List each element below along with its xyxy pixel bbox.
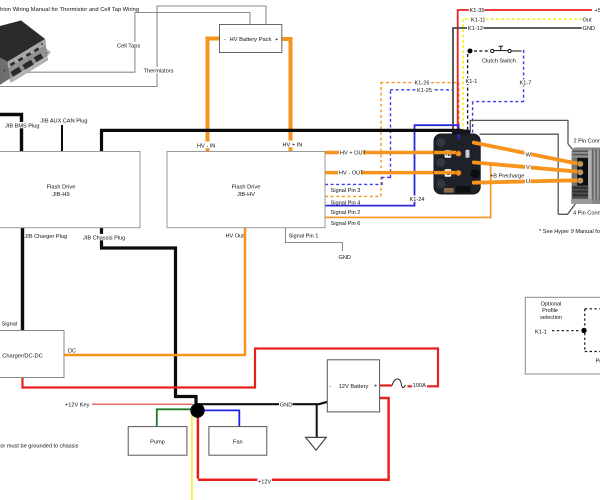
wire: main black bus JIB-H9 to controller — [100, 129, 461, 152]
svg-text:HV - IN: HV - IN — [197, 144, 215, 150]
svg-text:* See Hyper 9 Manual for more: * See Hyper 9 Manual for more — [539, 229, 600, 235]
label W — [525, 151, 532, 158]
wire: thermistors (BMS to HV pack) — [0, 6, 266, 88]
svg-text:K1-12: K1-12 — [468, 26, 483, 32]
label JIB BMS Plug — [5, 122, 40, 130]
wire: HV - OUT segment over controller — [434, 171, 456, 175]
wire K1-26 / Signal Pin 4 (orange dashed) — [325, 83, 459, 197]
svg-text:K1-11: K1-11 — [471, 18, 486, 24]
box: Flash Drive JIB-H9 — [0, 152, 140, 228]
svg-text:Fan: Fan — [233, 440, 243, 446]
wire: JIB BMS plug — [0, 113, 22, 152]
wire: cell taps (BMS to HV pack) — [21, 12, 250, 73]
phase wire U — [474, 180, 580, 183]
svg-text:+B Precharge: +B Precharge — [490, 173, 524, 179]
label V — [525, 164, 531, 171]
svg-text:JIB BMS Plug: JIB BMS Plug — [5, 124, 40, 130]
label Cell Taps — [117, 42, 142, 50]
wire Signal Pin 6 (thin orange, +B precharge) — [325, 164, 491, 219]
label +5 (clipped) — [594, 7, 600, 15]
svg-text:Out: Out — [583, 18, 592, 24]
svg-text:Profiles: Profiles — [596, 359, 600, 365]
label JIB Chassis Plug — [83, 234, 126, 242]
svg-text:4 Pin Connector: 4 Pin Connector — [573, 211, 600, 217]
box: Pump — [128, 427, 187, 456]
box: Optional Profile selection — [525, 297, 600, 374]
wire: charger 12V red loop to battery fuse — [21, 347, 439, 388]
phase wire V — [474, 162, 580, 171]
box: Flash Drive JIB-HV — [167, 152, 325, 228]
wire: fan feed (blue) — [202, 410, 239, 427]
wire: JIB AUX CAN plug — [61, 125, 63, 152]
junction node (12V distribution) — [190, 403, 204, 417]
label K1-35 — [469, 7, 485, 15]
ground symbol (chassis) — [306, 437, 327, 450]
svg-text:JIB-HV: JIB-HV — [237, 192, 255, 198]
label Thermistors — [143, 67, 174, 75]
svg-text:-: - — [329, 384, 331, 390]
svg-text:K1-25: K1-25 — [417, 88, 432, 94]
phase wire W — [474, 143, 580, 164]
svg-text:Pump: Pump — [150, 440, 165, 446]
svg-text:W: W — [526, 152, 532, 158]
wire: HV Out / DC link charger (orange) — [64, 228, 247, 355]
motor M1 (Hyper 9) — [570, 148, 600, 205]
svg-text:2 Pin Connector: 2 Pin Connector — [574, 138, 600, 144]
wire K1-11 (yellow dashed, Out) — [463, 19, 582, 133]
svg-text:HV Out: HV Out — [226, 234, 245, 240]
wire K1-25 / Signal Pin 3 (blue dashed) — [325, 90, 453, 185]
svg-text:+12V: +12V — [258, 480, 271, 486]
wire: profile select dashed — [552, 330, 580, 332]
wire: 12V GND bus (black) — [198, 402, 328, 404]
label HV - IN — [197, 142, 216, 150]
svg-text:-: - — [224, 37, 226, 43]
wire: 4 pin connector line — [480, 134, 580, 215]
label K1-25 — [416, 87, 434, 94]
svg-text:JIB-H9: JIB-H9 — [52, 192, 69, 198]
svg-text:Thermistors: Thermistors — [144, 69, 174, 75]
wire K1-1 (black dashed, clutch switch left) — [467, 54, 469, 133]
label Out — [582, 16, 593, 24]
label K1-24 — [409, 195, 425, 203]
svg-text:U: U — [526, 179, 530, 185]
svg-text:GND: GND — [339, 255, 351, 261]
wire: HV+ battery to JIB-HV (HV + IN) — [281, 37, 291, 152]
svg-text:Clutch Switch: Clutch Switch — [482, 59, 516, 65]
svg-text:V: V — [526, 165, 530, 171]
svg-text:Signal Pin 4: Signal Pin 4 — [331, 201, 361, 207]
wire: Signal Pin 1 to GND — [285, 228, 343, 251]
svg-text:Signal Pin 3: Signal Pin 3 — [331, 188, 361, 194]
phase wire ends at motor terminals — [570, 162, 580, 164]
svg-text:Motor must be grounded to chas: Motor must be grounded to chassis — [0, 444, 79, 450]
box: 12V Battery — [327, 360, 379, 412]
svg-text:Signal Pin 1: Signal Pin 1 — [289, 234, 319, 240]
wire K1-7 (blue dashed, clutch switch right) — [473, 50, 524, 133]
label HV - OUT — [338, 169, 364, 177]
svg-text:K1-24: K1-24 — [410, 197, 425, 203]
svg-text:HV + OUT: HV + OUT — [340, 150, 367, 156]
fuse F1 (100A) — [392, 379, 406, 388]
wire: HV - OUT (orange) — [325, 171, 457, 175]
svg-text:See Orion Wiring Manual for Th: See Orion Wiring Manual for Thermistor a… — [0, 7, 139, 13]
label K1-7 — [519, 79, 533, 86]
svg-text:JIB AUX CAN Plug: JIB AUX CAN Plug — [41, 119, 88, 125]
label GND (top right) — [582, 25, 596, 33]
wire: HV + OUT (orange) — [325, 151, 457, 155]
svg-text:Charger/DC-DC: Charger/DC-DC — [2, 354, 42, 360]
clutch switch SW1 — [468, 46, 522, 53]
svg-text:HV Battery Pack: HV Battery Pack — [230, 37, 272, 43]
svg-text:HV + IN: HV + IN — [283, 142, 303, 148]
svg-text:100A: 100A — [413, 383, 426, 389]
svg-text:HV - OUT: HV - OUT — [339, 171, 364, 177]
label HV + IN — [282, 141, 302, 149]
svg-text:Signal Pin 6: Signal Pin 6 — [331, 221, 361, 227]
wire: HV- battery to JIB-HV (HV - IN) — [208, 37, 221, 152]
label K1-26 — [414, 79, 432, 87]
battery B1: HV Battery Pack — [220, 25, 282, 53]
wire K1-24 / Signal Pin 2 (blue solid) — [325, 124, 459, 206]
label K1-11 — [471, 16, 487, 24]
wire: JIB chassis plug to junction — [100, 228, 196, 404]
label GND (12V bus) — [279, 401, 293, 409]
label K1-12 — [467, 25, 484, 33]
svg-text:JIB Charger Plug: JIB Charger Plug — [25, 234, 68, 240]
label +12V — [257, 477, 272, 486]
wire: yellow feed from junction — [191, 410, 193, 500]
svg-text:Cell Taps: Cell Taps — [117, 44, 140, 50]
svg-text:DC: DC — [68, 349, 76, 355]
node: profile selector common — [581, 328, 586, 333]
svg-text:JIB Chassis Plug: JIB Chassis Plug — [83, 236, 125, 242]
svg-text:Optional: Optional — [541, 302, 562, 308]
svg-text:K1-1: K1-1 — [466, 79, 478, 85]
label K1-1 — [465, 78, 479, 85]
box: Charger/DC-DC — [0, 331, 64, 378]
svg-text:+12V Key: +12V Key — [65, 403, 90, 409]
svg-text:Signal Pin 2: Signal Pin 2 — [331, 210, 361, 216]
wire: chassis ground drop — [316, 404, 318, 437]
wire: K1-24 blue entering controller — [458, 134, 460, 140]
wire: selector throw dashed — [585, 309, 600, 352]
wire K1-12 (dark gray, GND) — [453, 27, 582, 134]
svg-text:Signal: Signal — [2, 322, 18, 328]
box: Fan — [209, 427, 267, 456]
svg-text:K1-35: K1-35 — [470, 8, 485, 14]
label U — [525, 178, 531, 185]
wire: 2 pin connector line (controller to motor) — [470, 120, 580, 158]
wire: JIB charger plug to Charger/DC-DC (Signal) — [21, 228, 24, 331]
svg-text:K1-1: K1-1 — [535, 329, 547, 335]
wire: battery + to fuse (red stub) — [380, 384, 392, 386]
wire: pump feed (green) — [157, 408, 193, 426]
svg-text:K1-7: K1-7 — [520, 81, 532, 87]
svg-text:Profile: Profile — [542, 308, 558, 314]
terminal: controller +B — [456, 151, 461, 156]
wire K1-35 (red, +5V rail) — [458, 9, 592, 134]
wire: HV + OUT segment over controller — [434, 151, 456, 155]
label HV + OUT — [339, 149, 367, 157]
svg-text:Flash Drive: Flash Drive — [47, 185, 76, 191]
Orion BMS module (isometric) — [0, 0, 55, 85]
wire: +12V red loop battery to junction — [198, 397, 390, 480]
svg-text:+5V: +5V — [595, 8, 600, 14]
terminals: phase W V U — [471, 140, 477, 146]
terminal: controller -B — [456, 170, 461, 175]
svg-text:GND: GND — [280, 403, 292, 409]
svg-text:K1-26: K1-26 — [415, 81, 430, 87]
label 100A — [412, 381, 427, 389]
svg-text:12V Battery: 12V Battery — [339, 384, 369, 390]
controller U1 (Hyper 9 inverter) — [434, 130, 480, 195]
svg-text:selection: selection — [540, 315, 562, 321]
wire: +12V Key (thin red) — [92, 403, 193, 405]
svg-text:GND: GND — [583, 26, 595, 32]
svg-text:Flash Drive: Flash Drive — [232, 185, 261, 191]
